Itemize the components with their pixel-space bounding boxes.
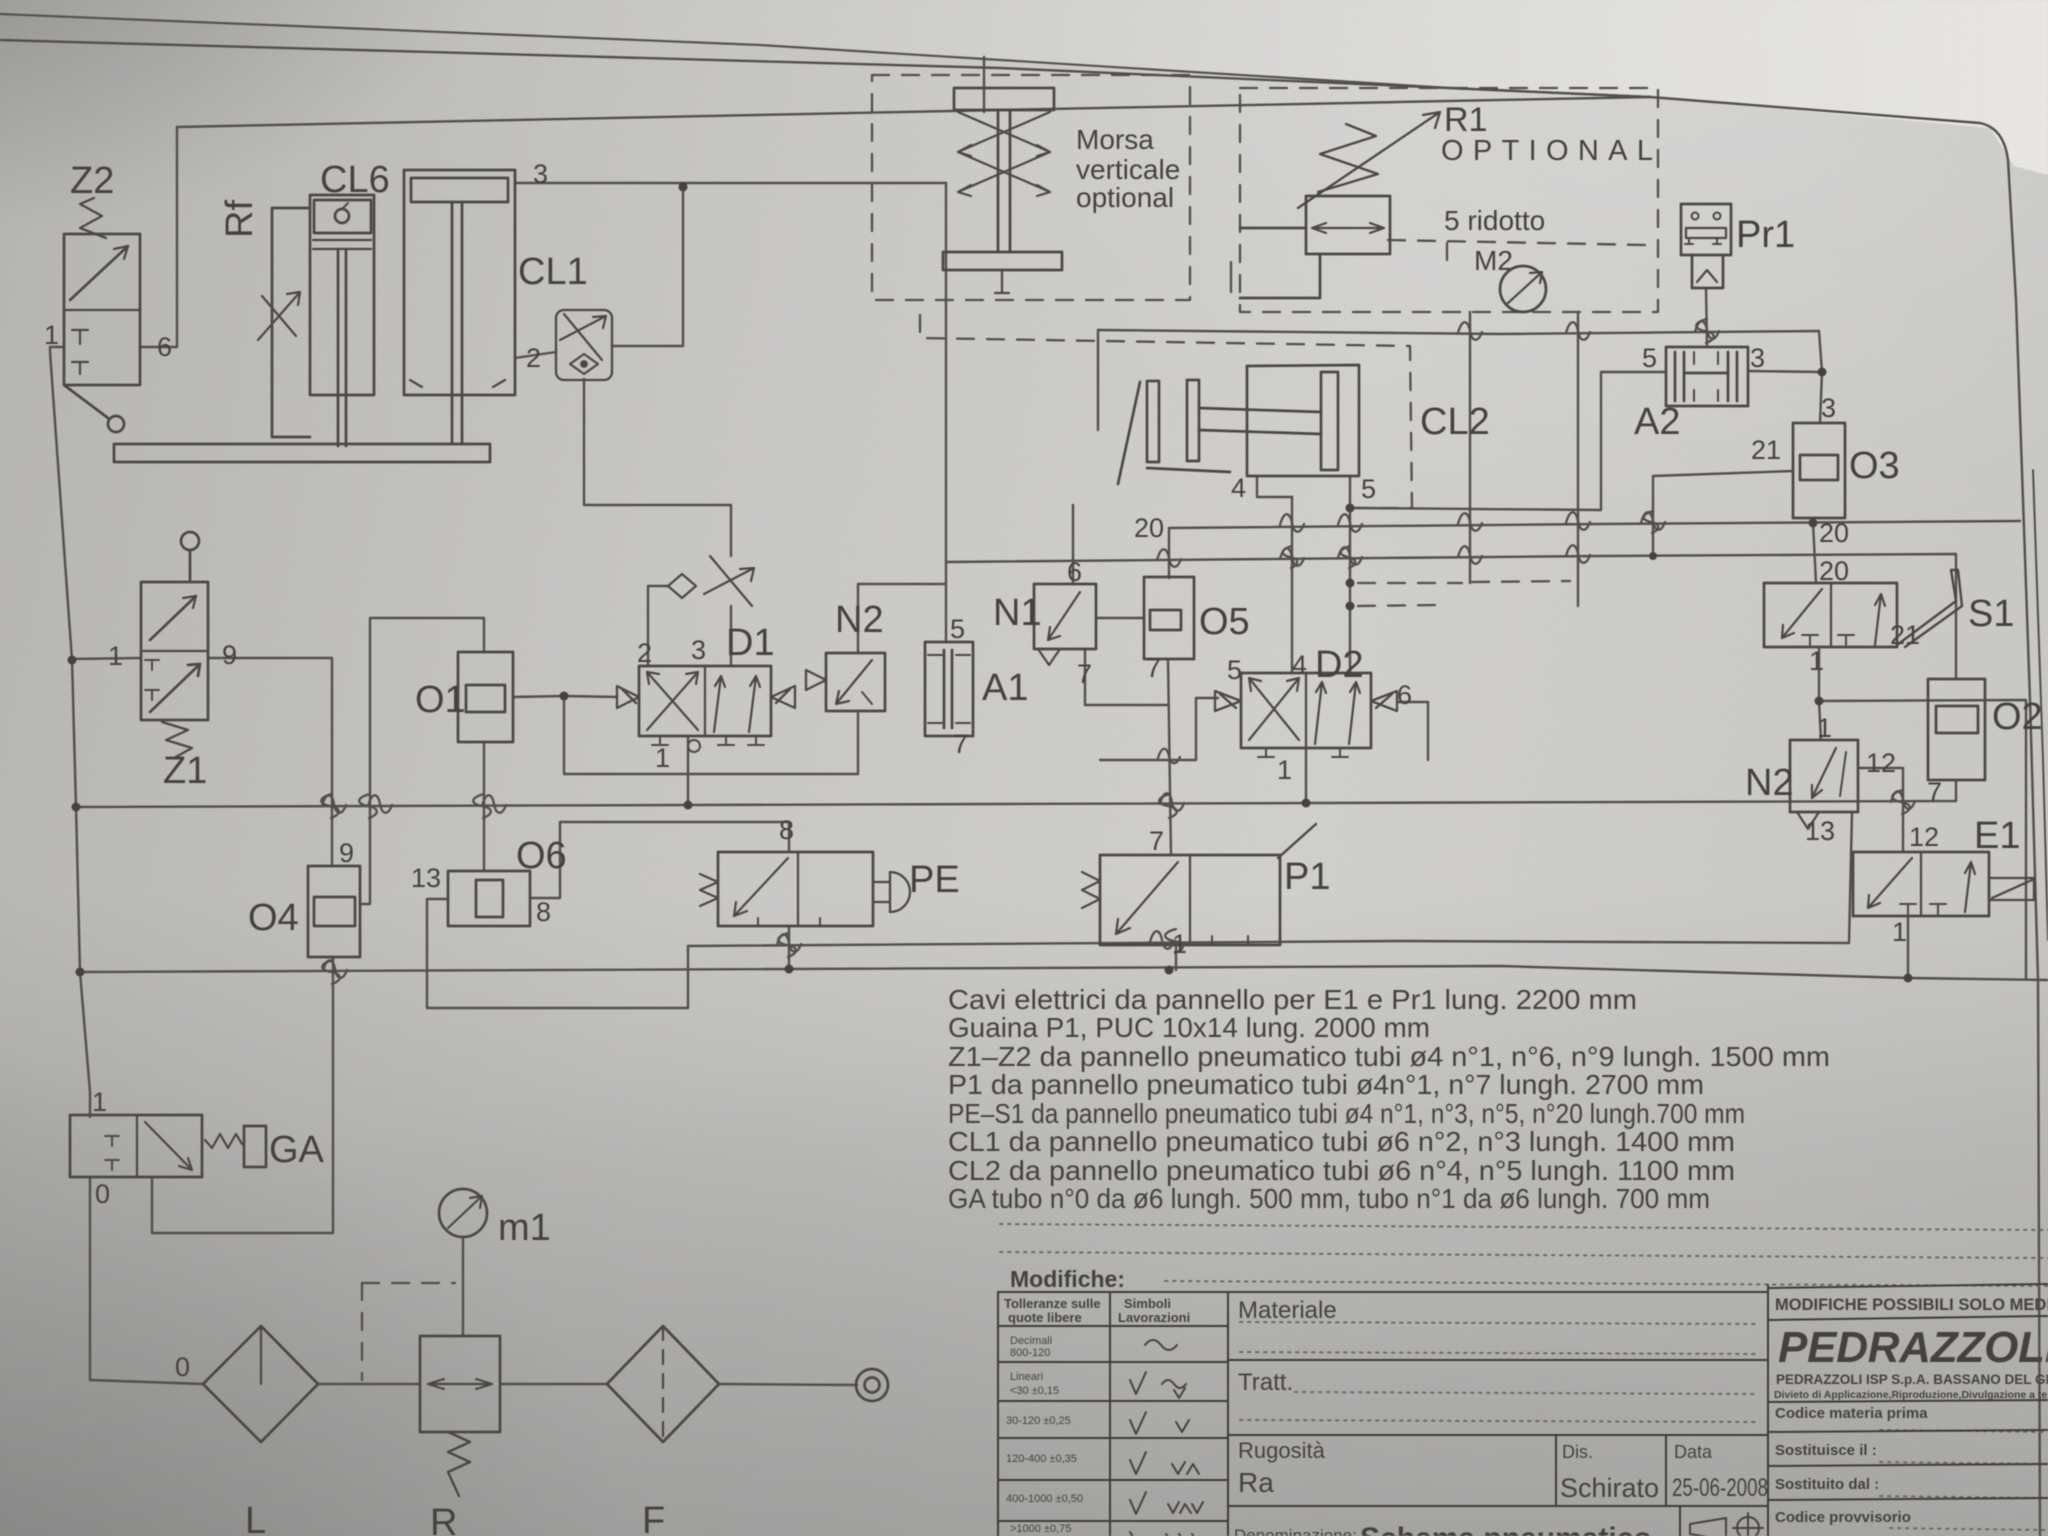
svg-text:1: 1: [1809, 646, 1824, 676]
svg-text:20: 20: [1819, 556, 1849, 586]
svg-text:>1000 ±0,75: >1000 ±0,75: [1010, 1523, 1071, 1535]
svg-text:5: 5: [1227, 655, 1242, 685]
svg-text:verticale: verticale: [1076, 154, 1180, 185]
svg-text:21: 21: [1751, 435, 1781, 465]
svg-text:S1: S1: [1968, 593, 2014, 635]
svg-text:P1: P1: [1284, 856, 1330, 898]
svg-text:0: 0: [175, 1352, 190, 1382]
svg-text:Lineari: Lineari: [1010, 1371, 1043, 1383]
svg-text:7: 7: [1146, 653, 1161, 683]
svg-text:O3: O3: [1849, 445, 1900, 487]
svg-text:7: 7: [1927, 777, 1942, 807]
svg-text:optional: optional: [1076, 182, 1174, 213]
svg-text:1: 1: [1277, 755, 1292, 785]
svg-text:5: 5: [950, 614, 965, 644]
svg-text:CL6: CL6: [320, 159, 390, 201]
svg-text:Rf: Rf: [219, 200, 261, 238]
svg-text:12: 12: [1909, 822, 1939, 852]
svg-text:R: R: [430, 1502, 457, 1536]
svg-text:Tratt.: Tratt.: [1238, 1369, 1293, 1396]
svg-text:1: 1: [92, 1087, 107, 1117]
svg-text:E1: E1: [1974, 815, 2020, 857]
svg-text:Dis.: Dis.: [1562, 1442, 1593, 1462]
svg-text:quote libere: quote libere: [1008, 1310, 1082, 1325]
svg-text:L: L: [245, 1500, 266, 1536]
svg-text:6: 6: [1397, 680, 1412, 710]
svg-text:A1: A1: [982, 667, 1028, 709]
svg-text:4: 4: [1292, 650, 1307, 680]
svg-text:Pr1: Pr1: [1736, 214, 1795, 256]
svg-text:6: 6: [1067, 557, 1082, 587]
svg-text:N2: N2: [835, 599, 884, 641]
svg-text:O4: O4: [248, 897, 299, 939]
svg-text:Rugosità: Rugosità: [1238, 1438, 1326, 1463]
svg-text:N2: N2: [1745, 762, 1794, 804]
svg-text:1: 1: [1817, 713, 1832, 743]
svg-text:PE: PE: [909, 859, 960, 901]
svg-text:Sostituito dal :: Sostituito dal :: [1775, 1476, 1879, 1493]
svg-text:7: 7: [1149, 826, 1164, 856]
svg-text:400-1000 ±0,50: 400-1000 ±0,50: [1006, 1493, 1083, 1505]
svg-text:Tolleranze sulle: Tolleranze sulle: [1004, 1296, 1101, 1311]
svg-text:Divieto di Applicazione,Riprod: Divieto di Applicazione,Riproduzione,Div…: [1774, 1389, 2048, 1401]
svg-text:D2: D2: [1315, 644, 1364, 686]
svg-text:20: 20: [1134, 513, 1164, 543]
svg-text:O1: O1: [415, 679, 466, 721]
svg-text:Lavorazioni: Lavorazioni: [1118, 1310, 1190, 1325]
svg-text:Decimali: Decimali: [1010, 1335, 1052, 1347]
svg-text:Denominazione:: Denominazione:: [1234, 1526, 1357, 1536]
svg-text:D1: D1: [726, 622, 775, 664]
svg-text:O6: O6: [516, 835, 567, 877]
svg-text:3: 3: [691, 635, 706, 665]
svg-text:PE–S1 da pannello pneumatico t: PE–S1 da pannello pneumatico tubi ø4 n°1…: [948, 1098, 1745, 1129]
svg-text:3: 3: [1750, 343, 1765, 373]
svg-text:Morsa: Morsa: [1076, 124, 1154, 155]
svg-text:<30 ±0,15: <30 ±0,15: [1010, 1385, 1059, 1397]
svg-text:M2: M2: [1474, 245, 1513, 276]
svg-text:CL1: CL1: [518, 251, 588, 293]
svg-text:PEDRAZZOLI: PEDRAZZOLI: [1778, 1323, 2048, 1372]
svg-text:Sostituisce il :: Sostituisce il :: [1775, 1442, 1877, 1459]
svg-text:9: 9: [339, 838, 354, 868]
svg-text:Data: Data: [1674, 1442, 1713, 1462]
svg-text:20: 20: [1819, 518, 1849, 548]
svg-text:25-06-2008: 25-06-2008: [1672, 1474, 1768, 1502]
svg-text:5: 5: [1361, 474, 1376, 504]
svg-text:GA: GA: [269, 1129, 325, 1171]
svg-text:8: 8: [536, 897, 551, 927]
svg-text:Z1: Z1: [163, 750, 207, 792]
svg-text:Schema pneumatico: Schema pneumatico: [1360, 1522, 1652, 1536]
svg-text:1: 1: [44, 320, 59, 350]
svg-text:1: 1: [1172, 929, 1187, 959]
svg-text:2: 2: [637, 638, 652, 668]
svg-text:PEDRAZZOLI ISP S.p.A. BASSAN: PEDRAZZOLI ISP S.p.A. BASSANO DEL GRAPPA: [1776, 1372, 2048, 1387]
svg-text:3: 3: [1821, 393, 1836, 423]
svg-text:N1: N1: [993, 592, 1042, 634]
svg-text:CL1 da pannello pneumatico tub: CL1 da pannello pneumatico tubi ø6 n°2, …: [948, 1126, 1735, 1157]
svg-text:Materiale: Materiale: [1238, 1297, 1337, 1324]
svg-text:Schirato: Schirato: [1560, 1473, 1659, 1503]
svg-text:Cavi elettrici da pannello per: Cavi elettrici da pannello per E1 e Pr1 …: [948, 984, 1637, 1015]
svg-text:O5: O5: [1199, 601, 1250, 643]
svg-text:Codice materia prima: Codice materia prima: [1775, 1405, 1928, 1422]
svg-text:12: 12: [1866, 748, 1896, 778]
svg-text:Ra: Ra: [1238, 1467, 1274, 1498]
svg-text:800-120: 800-120: [1010, 1347, 1050, 1359]
svg-text:Modifiche:: Modifiche:: [1010, 1266, 1125, 1292]
svg-text:1: 1: [108, 641, 123, 671]
svg-text:13: 13: [411, 863, 441, 893]
svg-text:Codice provvisorio: Codice provvisorio: [1775, 1509, 1911, 1526]
svg-text:1: 1: [1892, 917, 1907, 947]
svg-text:Z1–Z2 da pannello pneumatico t: Z1–Z2 da pannello pneumatico tubi ø4 n°1…: [948, 1041, 1830, 1072]
svg-text:Simboli: Simboli: [1124, 1296, 1171, 1311]
svg-text:7: 7: [1077, 659, 1092, 689]
svg-text:CL2: CL2: [1420, 401, 1490, 443]
svg-text:7: 7: [953, 729, 968, 759]
svg-text:MODIFICHE POSSIBILI SOLO MEDIA: MODIFICHE POSSIBILI SOLO MEDIANTE CAD: [1775, 1296, 2048, 1314]
svg-text:OPTIONAL: OPTIONAL: [1441, 135, 1653, 167]
svg-text:6: 6: [157, 332, 172, 362]
svg-text:120-400 ±0,35: 120-400 ±0,35: [1006, 1453, 1077, 1465]
svg-text:30-120 ±0,25: 30-120 ±0,25: [1006, 1415, 1071, 1427]
svg-text:P1 da pannello pneumatico tubi: P1 da pannello pneumatico tubi ø4n°1, n°…: [948, 1069, 1704, 1100]
svg-text:5 ridotto: 5 ridotto: [1444, 205, 1545, 236]
svg-text:3: 3: [533, 159, 548, 189]
svg-text:F: F: [642, 1500, 665, 1536]
svg-text:Guaina P1, PUC 10x14 lung. 200: Guaina P1, PUC 10x14 lung. 2000 mm: [948, 1012, 1430, 1043]
svg-text:R1: R1: [1444, 101, 1487, 139]
svg-text:CL2 da pannello pneumatico tub: CL2 da pannello pneumatico tubi ø6 n°4, …: [948, 1155, 1735, 1186]
svg-text:2: 2: [526, 343, 541, 373]
svg-text:0: 0: [95, 1179, 110, 1209]
svg-text:m1: m1: [498, 1207, 551, 1249]
svg-text:5: 5: [1642, 343, 1657, 373]
svg-text:Z2: Z2: [70, 160, 114, 202]
svg-text:21: 21: [1890, 620, 1920, 650]
svg-text:O2: O2: [1992, 696, 2043, 738]
svg-text:A2: A2: [1634, 401, 1680, 443]
svg-text:1: 1: [655, 743, 670, 773]
svg-text:13: 13: [1805, 816, 1835, 846]
svg-text:GA tubo n°0 da ø6 lungh. 500 m: GA tubo n°0 da ø6 lungh. 500 mm, tubo n°…: [948, 1183, 1710, 1214]
svg-text:4: 4: [1231, 473, 1246, 503]
svg-text:8: 8: [779, 815, 794, 845]
svg-text:9: 9: [222, 640, 237, 670]
